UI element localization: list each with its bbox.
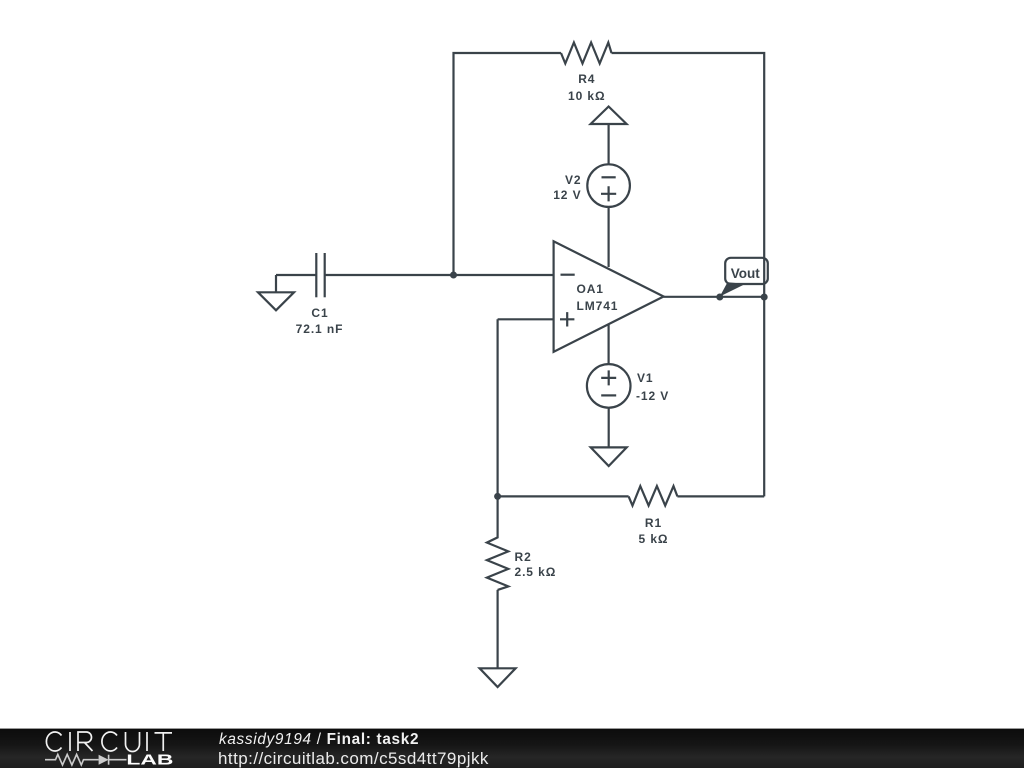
node A junction bbox=[450, 272, 457, 279]
wire V1 to ground bbox=[608, 408, 610, 448]
node Vout junction bbox=[716, 294, 723, 301]
resistor R1 bbox=[629, 486, 678, 506]
label R4 bbox=[578, 73, 595, 85]
voltage source V1 bbox=[587, 364, 631, 408]
wire op-amp to V1 bbox=[607, 325, 609, 364]
bottom bar bbox=[0, 728, 1024, 768]
label C1 bbox=[311, 307, 328, 319]
node B junction bbox=[494, 493, 501, 500]
bar text line 2 bbox=[218, 750, 489, 767]
wire R1 to right bbox=[677, 495, 764, 497]
power arrow bbox=[591, 107, 627, 125]
label R2 bbox=[515, 551, 532, 563]
label OA1 bbox=[577, 283, 604, 295]
label V1 bbox=[637, 372, 653, 384]
bar text line 1 bbox=[219, 732, 419, 747]
wire output bbox=[664, 296, 765, 298]
wire node A to inverting input bbox=[454, 274, 554, 276]
wire node B to R1 bbox=[498, 495, 629, 497]
label Vout bbox=[731, 267, 760, 281]
wire feedback left bbox=[454, 53, 562, 275]
label V2 bbox=[565, 174, 581, 186]
CircuitLab logo bbox=[0, 728, 210, 768]
ground C1 bbox=[258, 275, 294, 310]
wire feedback right bbox=[612, 53, 765, 297]
svg-text:LAB: LAB bbox=[126, 752, 173, 768]
voltage source V2 bbox=[587, 164, 630, 207]
resistor R4 bbox=[561, 43, 612, 64]
wire down to node B bbox=[497, 319, 499, 496]
wire non-inverting input bbox=[498, 318, 554, 320]
resistor R2 bbox=[487, 496, 508, 590]
Vout flag bbox=[720, 258, 768, 297]
label R1 bbox=[645, 517, 662, 529]
wire R2 to ground bbox=[497, 590, 499, 668]
wire arrow to V2 bbox=[607, 124, 609, 164]
wire right lower bbox=[763, 297, 765, 496]
capacitor C1 bbox=[276, 253, 454, 297]
op-amp OA1 bbox=[554, 241, 664, 351]
junction output right bbox=[761, 294, 768, 301]
ground V1 bbox=[591, 447, 627, 466]
wire V2 to op-amp bbox=[607, 207, 609, 267]
ground bottom bbox=[480, 668, 516, 687]
